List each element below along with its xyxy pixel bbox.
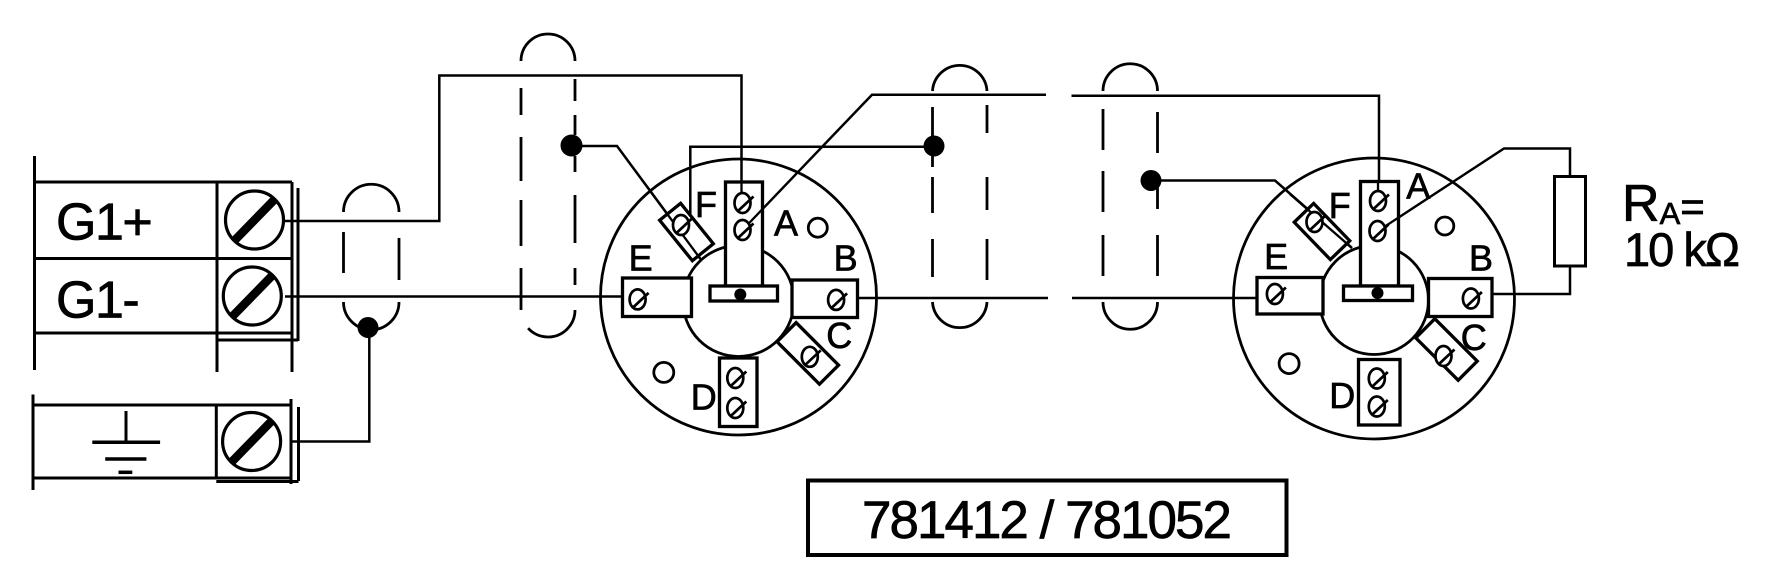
svg-text:781412 / 781052: 781412 / 781052 [862, 491, 1230, 550]
svg-text:A: A [774, 203, 798, 244]
svg-text:E: E [629, 238, 653, 279]
svg-text:B: B [834, 238, 858, 279]
svg-text:B: B [1469, 238, 1493, 279]
svg-text:F: F [1329, 185, 1351, 226]
svg-text:10 kΩ: 10 kΩ [1624, 223, 1739, 276]
svg-text:C: C [826, 315, 852, 356]
svg-text:E: E [1264, 236, 1288, 277]
svg-text:G1+: G1+ [56, 194, 151, 252]
svg-text:D: D [691, 377, 717, 418]
svg-text:D: D [1329, 375, 1355, 416]
svg-text:G1-: G1- [56, 272, 138, 330]
svg-text:C: C [1461, 317, 1487, 358]
svg-text:F: F [695, 184, 717, 225]
svg-text:A: A [1406, 166, 1430, 207]
